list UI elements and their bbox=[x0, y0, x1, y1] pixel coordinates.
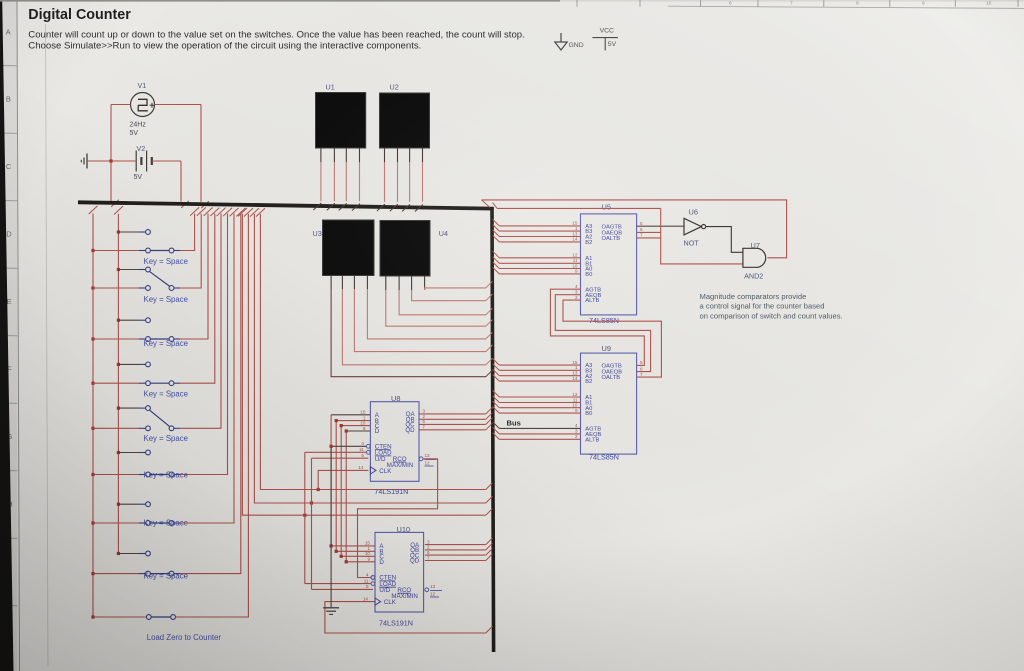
counter U8 74LS191N bbox=[370, 402, 419, 482]
wire: ground net vertical (CTEN) bbox=[330, 446, 332, 607]
wire AND output feedback to bus bbox=[482, 200, 787, 258]
wires: U9 outputs cascade to U5 inputs bbox=[550, 289, 644, 365]
bus vertical bbox=[492, 207, 494, 652]
display U2 pins to bus bbox=[384, 148, 386, 162]
wire: counter data A vertical bbox=[330, 415, 332, 546]
wire: LOAD vertical to U8 and U10 bbox=[304, 452, 306, 583]
wires U8 outputs to bus bbox=[419, 413, 486, 415]
switch J1 (Key = Space) bbox=[117, 230, 120, 233]
wire: bus drop to up/down net bbox=[254, 214, 485, 503]
wire: U10 CLK from bus (bottom) bbox=[325, 602, 486, 633]
wire: switch feed rail 1 bbox=[92, 213, 94, 617]
wire: load switch output to bus bbox=[176, 214, 249, 617]
comparator U9 74LS85N bbox=[581, 353, 637, 454]
switch J7 (Key = Space) bbox=[117, 503, 120, 506]
switch J8 (Key = Space) bbox=[117, 552, 120, 555]
display U3 pin wires to bus bbox=[330, 276, 332, 290]
switch J4 (Key = Space) bbox=[117, 363, 120, 366]
switch J9 (Load Zero to Counter) bbox=[91, 615, 94, 618]
wire V1 left bbox=[111, 104, 131, 106]
wire V2 down to bus bbox=[180, 161, 182, 202]
wire: U/D vertical to U8 and U10 bbox=[311, 458, 313, 589]
wire V1 down to bus bbox=[110, 105, 112, 202]
wire: switch feed rail 2 bbox=[117, 214, 119, 554]
wire: switch J1 output to bus bbox=[180, 214, 195, 251]
counter U10 74LS191N bbox=[375, 532, 424, 612]
display U1 pins to bus bbox=[320, 148, 322, 162]
clock source V1 bbox=[131, 93, 155, 117]
wire: counter data D vertical bbox=[345, 431, 347, 562]
wire: switch J8 output to bus bbox=[180, 214, 241, 574]
ground symbol GND (top) bbox=[560, 33, 562, 42]
bus horizontal bbox=[78, 202, 494, 208]
wires U9 inputs from bus bbox=[499, 364, 580, 366]
wires U5 inputs from bus bbox=[499, 225, 580, 227]
wire NOT output to AND input A bbox=[706, 227, 743, 253]
wire: bus drop to counter clock net bbox=[260, 214, 485, 490]
display U4 pin wires to bus bbox=[385, 276, 387, 290]
wire U8 RCO cascade to U10 CTEN bbox=[419, 457, 423, 461]
wire ground to V2 bbox=[87, 160, 136, 162]
wires U10 outputs to bus bbox=[425, 544, 486, 546]
wire U5 OAGTB to NOT input bbox=[637, 225, 684, 227]
switch J6 (Key = Space) bbox=[117, 451, 120, 454]
wire: switch J4 output to bus bbox=[180, 214, 215, 384]
wire: switch J3 output to bus bbox=[180, 214, 208, 340]
wire: switch J5 output to bus bbox=[180, 214, 221, 429]
wire V1 right bbox=[155, 104, 202, 106]
ground symbol (left of V2) bbox=[86, 154, 88, 169]
left ruler column bbox=[0, 0, 17, 671]
junction up/down net bbox=[310, 501, 313, 504]
left screen edge (dark strip) bbox=[0, 0, 14, 671]
wire net from bus corner bbox=[497, 207, 661, 209]
wire: switch J6 output to bus bbox=[180, 214, 228, 475]
wire: switch J2 output to bus bbox=[180, 214, 201, 289]
junction data A / U10 bbox=[330, 544, 333, 547]
switch J3 (Key = Space) bbox=[117, 319, 120, 322]
wire: bus drop to load net bbox=[242, 214, 485, 515]
junction clock net bbox=[317, 488, 320, 491]
junction ground net bbox=[330, 445, 333, 448]
wire: counter data C vertical bbox=[340, 426, 342, 557]
wire U5 OAEQB/OALTB to AND input B bbox=[637, 231, 661, 233]
switch J5 (Key = Space) bbox=[117, 407, 120, 410]
wire V2 right bbox=[152, 160, 181, 162]
junction V1/V2 bbox=[109, 159, 112, 162]
U10 RCO stub bbox=[425, 588, 429, 592]
top ruler (right half) bbox=[560, 0, 1024, 7]
switch J2 (Key = Space) bbox=[117, 268, 120, 271]
ground symbol (counters) bbox=[323, 607, 339, 609]
wire: counter data B vertical bbox=[335, 421, 337, 552]
wire: U8 CLK branch bbox=[318, 470, 368, 489]
wire: switch J7 output to bus bbox=[180, 214, 234, 524]
wire V1 right down to bus bbox=[200, 105, 202, 202]
junction load net bbox=[303, 514, 306, 517]
sheet left border line bbox=[46, 24, 49, 666]
comparator U5 74LS85N bbox=[581, 214, 637, 315]
